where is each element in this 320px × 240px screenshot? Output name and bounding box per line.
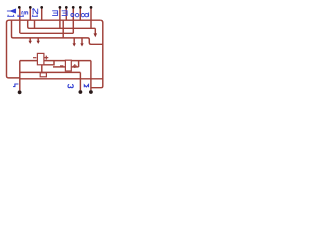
battery B2 minus xyxy=(60,65,63,67)
wire right mid drop xyxy=(90,61,92,91)
label glyph D xyxy=(52,11,57,16)
wire stub arrow a xyxy=(29,38,31,41)
battery B2 body xyxy=(65,60,71,71)
label dash row A2 xyxy=(17,15,24,17)
junction dot T7 xyxy=(79,6,82,9)
label glyph A xyxy=(10,9,16,13)
wire W2 right drop xyxy=(94,28,96,33)
junction dot T1 xyxy=(18,6,21,9)
component small box K1 xyxy=(40,73,46,77)
wire pin drop x91.2 xyxy=(90,7,92,28)
background xyxy=(0,0,111,104)
wire battery1 right lead xyxy=(44,60,91,62)
wire pin drop x63.2 xyxy=(62,20,64,38)
wire pin drop x65.7 xyxy=(65,7,67,20)
wire x80 drop xyxy=(79,72,81,90)
wire battery2 left lead xyxy=(53,66,65,68)
wire left rail xyxy=(7,20,20,78)
label glyph B xyxy=(22,12,28,15)
battery B2 plus xyxy=(73,64,77,68)
wire pin drop x59.9 xyxy=(59,7,61,28)
junction dot T3 xyxy=(40,6,43,9)
wire bottom long xyxy=(20,78,103,80)
label base row C xyxy=(32,15,38,17)
arrowhead d xyxy=(80,43,83,46)
label glyph C digit 2 xyxy=(32,8,38,14)
wire pin drop x30 xyxy=(29,7,31,20)
label glyph H xyxy=(81,13,84,16)
battery B1 body xyxy=(37,53,44,64)
junction dot D1 xyxy=(18,90,22,94)
label glyph F digit 2 xyxy=(71,14,74,17)
wire battery2 right lead xyxy=(71,66,78,68)
junction dot T8 xyxy=(90,6,93,9)
label glyph bottom mid xyxy=(68,85,73,88)
wire pin drop x73.3 xyxy=(72,7,74,33)
wire y72 horizontal xyxy=(20,71,81,73)
wire top bus xyxy=(9,19,100,21)
arrowhead a xyxy=(29,41,32,44)
wire W2 horizontal xyxy=(28,20,96,28)
junction dot T4 xyxy=(59,6,62,9)
label glyph bottom right xyxy=(84,85,88,88)
wire battery2 riser xyxy=(78,61,80,67)
label glyph G xyxy=(75,13,78,16)
wire pin drop x19.5 xyxy=(19,7,21,33)
wire battery1 left lead xyxy=(20,60,38,62)
junction dot T5 xyxy=(65,6,68,9)
label glyph E xyxy=(62,11,67,16)
junction dot T2 xyxy=(29,6,32,9)
arrowhead w2 xyxy=(94,33,98,37)
wire stub arrow d xyxy=(81,38,83,44)
arrowhead b xyxy=(37,41,40,44)
junction dot D2 xyxy=(79,90,83,94)
arrowhead c xyxy=(73,43,76,46)
wire jog down xyxy=(42,61,54,73)
wire battery1 left drop xyxy=(19,61,21,91)
junction dot T6 xyxy=(72,6,75,9)
wire stub arrow b xyxy=(37,38,39,41)
wire W4 horizontal xyxy=(12,20,103,44)
battery B1 plus xyxy=(44,56,48,60)
wire W3 horizontal xyxy=(20,32,73,34)
wire pin drop x81.3 xyxy=(79,7,81,20)
battery B1 minus xyxy=(33,57,36,59)
wire pin drop x41.7 xyxy=(41,7,43,20)
label glyph bottom left xyxy=(13,84,18,87)
junction dot D3 xyxy=(89,90,93,94)
wire stub arrow c xyxy=(73,38,75,44)
label dash row A1 xyxy=(7,15,14,17)
wire pin drop x34.5 xyxy=(34,20,36,28)
wire right rail xyxy=(91,20,103,88)
